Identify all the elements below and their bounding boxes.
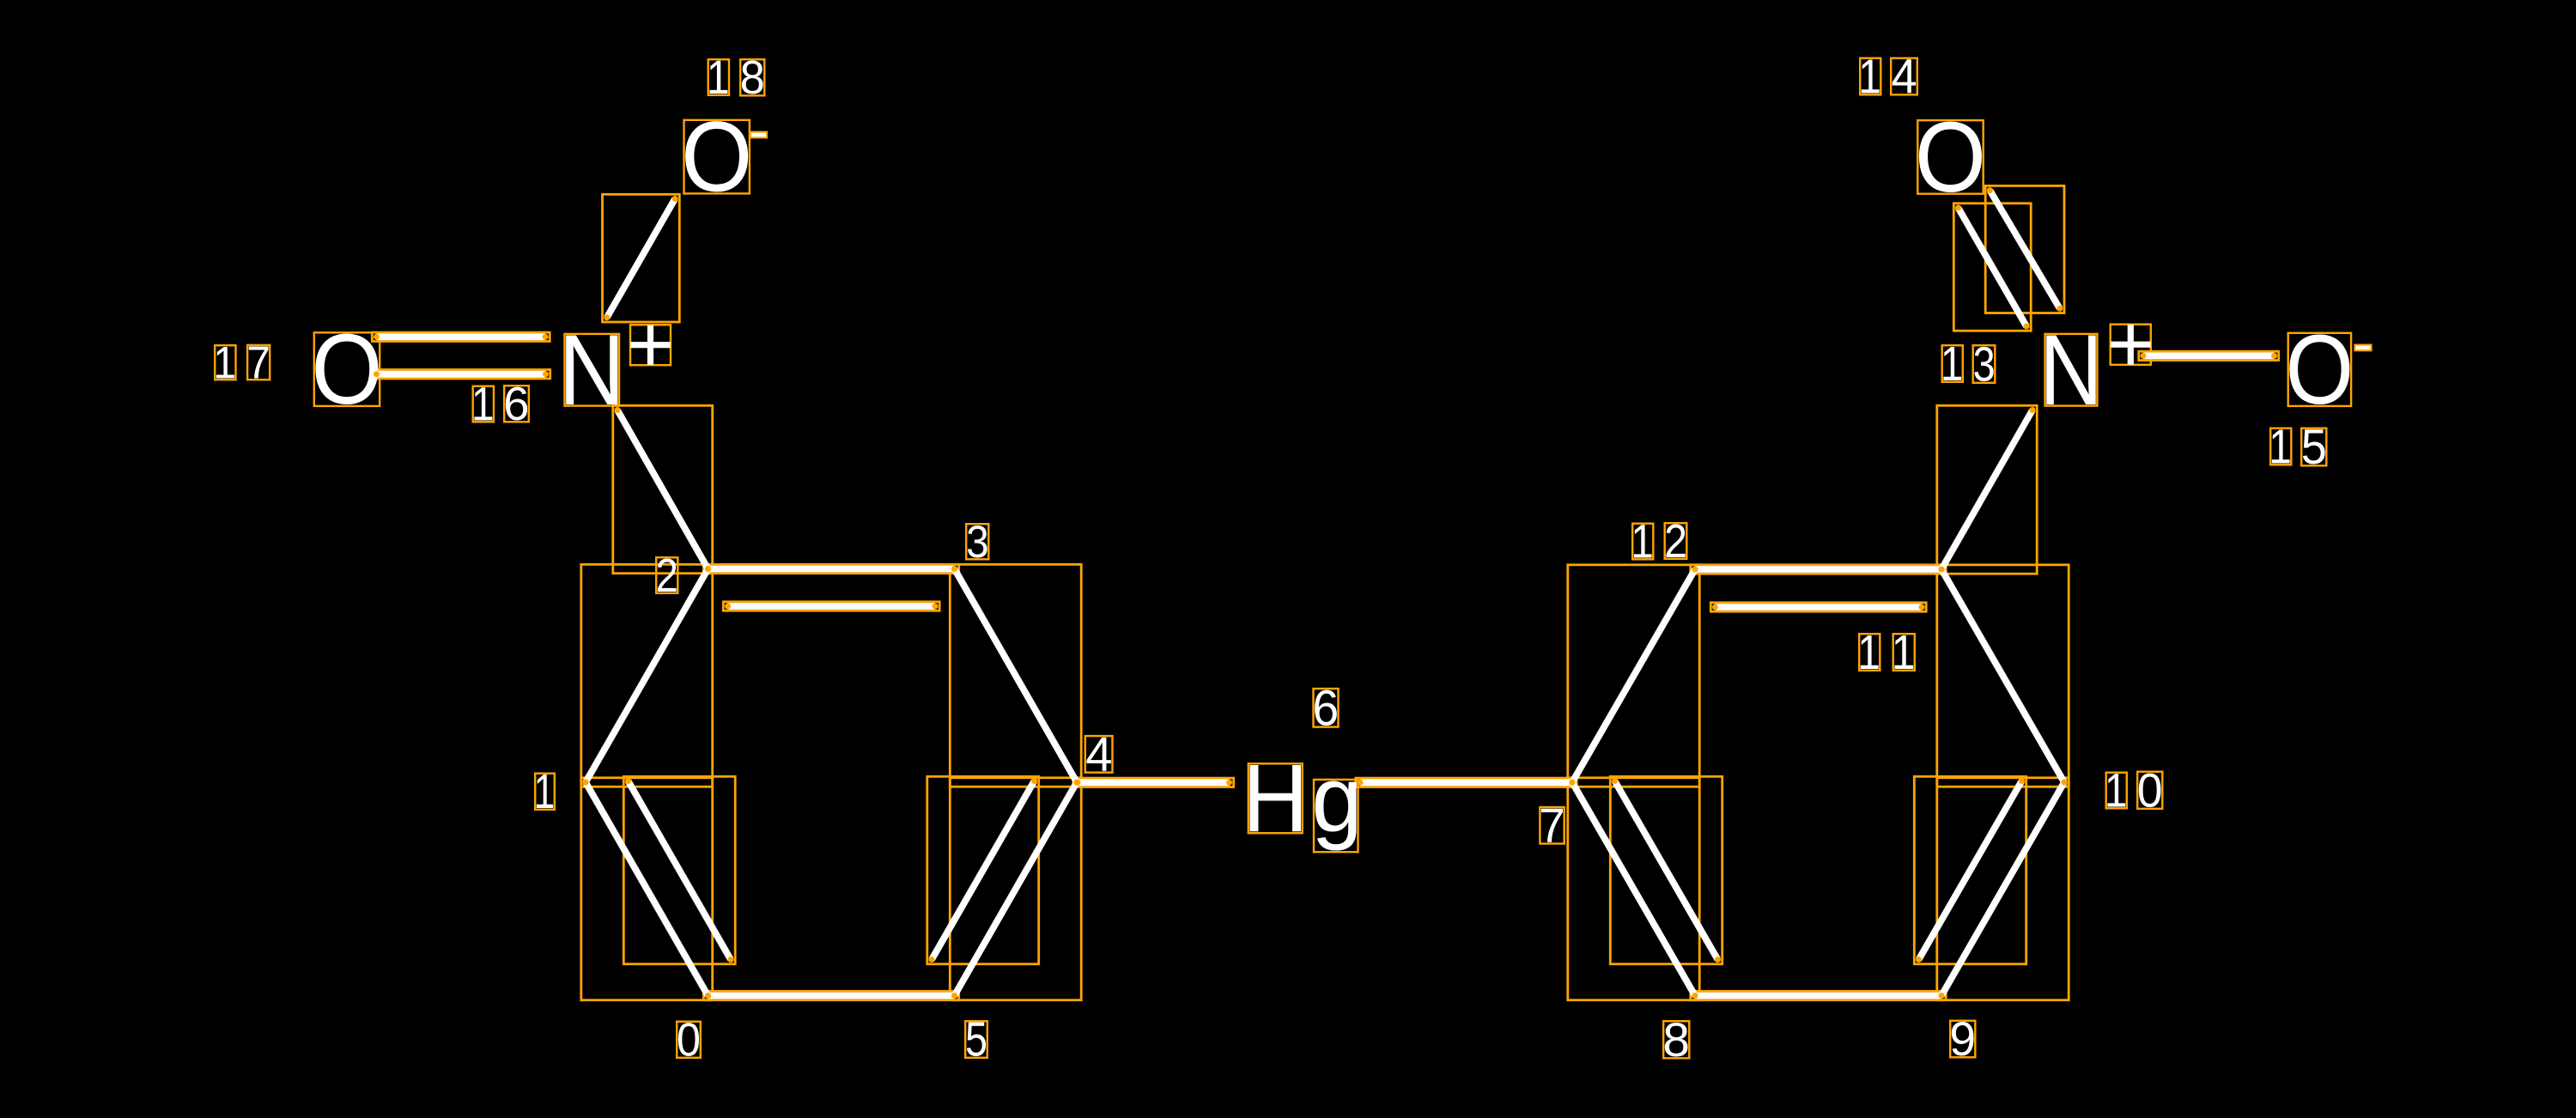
box of bond C0=C1 outer (581, 778, 713, 1000)
bond C0=C1 outer (586, 782, 708, 996)
endpoint markers of bond C10=C9 inner (2019, 778, 2025, 784)
bond C4-Hg (1078, 779, 1230, 786)
endpoint markers of bond O17=N16 line 1 (374, 334, 380, 340)
bond N13-O15 (2143, 352, 2275, 359)
box of index label 8 digit 1 (1663, 1021, 1689, 1058)
box of index label 17 digit 1 (215, 345, 235, 380)
endpoint markers of bond C7-C12 (1570, 780, 1576, 786)
box of bond N13=O14 line 2 (1985, 185, 2064, 313)
box of atom Hg6 label H (1249, 763, 1303, 833)
svg-text:1: 1 (213, 337, 236, 388)
box of charge minus on O15 (2355, 345, 2372, 350)
box of index label 10 digit 2 (2137, 772, 2162, 809)
box of bond N13=O14 line 1 (1953, 204, 2031, 331)
box of bond Hg-C7 (1356, 778, 1577, 787)
bond Hg-C7 (1360, 779, 1572, 786)
bond C2=C3 inner (728, 603, 936, 610)
svg-text:4: 4 (1085, 727, 1112, 781)
box of bond C1-C2 (581, 564, 713, 787)
endpoint markers of bond N13=O14 line 1 (1955, 205, 1961, 211)
box of bond C5-C0 (703, 991, 958, 1000)
box of atom Hg6 label g (1314, 780, 1358, 852)
box of atom N16 label (565, 334, 620, 406)
svg-text:8: 8 (1662, 1012, 1690, 1066)
svg-text:g: g (1311, 746, 1362, 851)
box of bond C2=C3 outer (703, 564, 958, 573)
endpoint markers of bond C11-C10 (1939, 567, 1945, 573)
svg-text:7: 7 (1539, 798, 1564, 853)
svg-text:1: 1 (471, 379, 495, 432)
endpoint markers of bond C1-C2 (583, 780, 589, 786)
svg-text:O: O (311, 313, 382, 425)
box of index label 15 digit 1 (2270, 428, 2291, 465)
endpoint markers of bond C2=C3 inner (725, 604, 731, 610)
box of bond C7-C12 (1568, 565, 1699, 787)
box of bond N16-C2 (613, 405, 713, 573)
svg-text:0: 0 (677, 1014, 701, 1066)
endpoint markers of bond C5-C0 (951, 993, 957, 999)
bond C12=C11 outer (1695, 566, 1941, 573)
charge minus on O18 (751, 133, 766, 137)
box of index label 16 digit 2 (504, 386, 529, 422)
box of bond C2=C3 inner (723, 602, 939, 611)
bond C2=C3 outer (708, 566, 955, 573)
box of atom O17 label (314, 332, 380, 406)
bond C3-C4 (955, 569, 1078, 783)
bond C12=C11 inner (1716, 604, 1923, 611)
box of index label 18 digit 1 (708, 59, 729, 95)
box of index label 12 digit 2 (1665, 523, 1687, 559)
box of bond O17=N16 line 2 (372, 370, 550, 379)
box of bond C4=C5 inner (927, 776, 1039, 963)
box of bond C8=C7 inner (1610, 776, 1722, 963)
box of bond C11-N13 (1937, 405, 2037, 574)
bond C11-C10 (1941, 569, 2064, 782)
endpoint markers of bond C12=C11 outer (1692, 567, 1698, 573)
box of atom O18 label (684, 120, 750, 194)
box of bond C12=C11 inner (1710, 603, 1926, 611)
box of index label 17 digit 2 (247, 345, 270, 380)
bond C10=C9 inner (1919, 781, 2022, 960)
box of bond C10=C9 inner (1914, 776, 2026, 963)
box of index label 4 digit 1 (1085, 736, 1113, 773)
svg-text:1: 1 (1857, 625, 1880, 680)
box of index label 2 digit 1 (656, 557, 677, 593)
endpoint markers of bond O17=N16 line 2 (374, 371, 380, 377)
svg-text:1: 1 (707, 52, 730, 105)
svg-text:5: 5 (965, 1012, 987, 1066)
box of charge plus on N16 (630, 325, 671, 365)
box of bond C12=C11 outer (1691, 565, 1946, 574)
svg-text:3: 3 (966, 516, 989, 568)
endpoint markers of bond C2=C3 outer (705, 566, 711, 572)
box of index label 16 digit 1 (473, 386, 494, 422)
box of bond C9-C8 (1691, 991, 1946, 1000)
box of index label 11 digit 2 (1893, 634, 1915, 671)
svg-text:0: 0 (2137, 763, 2163, 817)
bond N13=O14 line 2 (1990, 191, 2059, 309)
endpoint markers of bond N13=O14 line 2 (1987, 187, 1993, 193)
box of index label 14 digit 1 (1860, 58, 1880, 95)
box of index label 11 digit 1 (1859, 634, 1880, 671)
charge minus on O15 (2356, 346, 2371, 350)
endpoint markers of bond C10=C9 outer (2062, 780, 2068, 786)
bond C5-C0 (708, 993, 955, 1000)
bond C4=C5 inner (932, 781, 1035, 960)
svg-text:8: 8 (740, 52, 765, 104)
box of bond C4-Hg (1073, 778, 1234, 787)
box of bond C11-C10 (1937, 565, 2069, 787)
box of index label 13 digit 1 (1942, 345, 1963, 382)
endpoint markers of bond C12=C11 inner (1712, 605, 1718, 611)
endpoint markers of bond C8=C7 outer (1692, 993, 1698, 999)
box of bond O17=N16 line 1 (372, 332, 550, 341)
box of bond C4=C5 outer (950, 778, 1081, 1000)
charge plus on N16 (630, 325, 670, 365)
box of index label 7 digit 1 (1540, 807, 1564, 844)
endpoint markers of bond C11-N13 (1939, 567, 1945, 573)
svg-text:4: 4 (1892, 49, 1917, 104)
bond N13=O14 line 1 (1959, 208, 2027, 326)
box of bond N13-O15 (2139, 351, 2279, 360)
svg-text:7: 7 (246, 337, 270, 388)
bond C0=C1 inner (629, 781, 732, 960)
box of bond C10=C9 outer (1937, 778, 2069, 1000)
bond N16-O18 (607, 199, 675, 318)
endpoint markers of bond N16-O18 (604, 314, 610, 320)
svg-text:9: 9 (1949, 1012, 1976, 1066)
endpoint markers of bond N16-C2 (615, 407, 621, 413)
endpoint markers of bond N13-O15 (2141, 353, 2147, 359)
box of index label 12 digit 1 (1632, 524, 1653, 560)
bond C8=C7 outer (1572, 782, 1695, 996)
bond N16-C2 (617, 410, 708, 569)
box of charge minus on O18 (750, 132, 767, 137)
endpoint markers of bond C4=C5 outer (1074, 780, 1080, 786)
bond C10=C9 outer (1941, 782, 2064, 996)
box of atom O15 label (2288, 333, 2351, 406)
endpoint markers of bond C4=C5 inner (1031, 778, 1037, 784)
bond O17=N16 line 1 (377, 333, 546, 340)
svg-text:1: 1 (1631, 514, 1654, 568)
svg-text:N: N (2039, 314, 2103, 427)
svg-text:1: 1 (1892, 625, 1916, 680)
box of index label 3 digit 1 (966, 524, 988, 559)
box of index label 13 digit 2 (1973, 345, 1996, 383)
svg-text:2: 2 (1664, 514, 1687, 567)
box of index label 10 digit 1 (2106, 773, 2127, 809)
bond C9-C8 (1695, 993, 1941, 1000)
bond C4=C5 outer (955, 782, 1078, 996)
box of index label 5 digit 1 (965, 1021, 987, 1058)
box of bond C0=C1 inner (623, 776, 735, 963)
svg-text:3: 3 (1973, 337, 1996, 392)
svg-text:5: 5 (2301, 419, 2327, 475)
box of index label 9 digit 1 (1950, 1021, 1975, 1058)
svg-text:O: O (1915, 101, 1986, 213)
endpoint markers of bond C9-C8 (1939, 993, 1945, 999)
bond C1-C2 (586, 569, 708, 783)
svg-text:1: 1 (534, 764, 556, 818)
box of index label 6 digit 1 (1314, 689, 1339, 727)
box of atom O14 label (1917, 120, 1983, 194)
bond O17=N16 line 2 (377, 371, 546, 378)
svg-text:2: 2 (656, 550, 678, 602)
svg-text:1: 1 (2105, 763, 2128, 817)
box of index label 1 digit 1 (535, 774, 555, 810)
svg-text:1: 1 (1941, 337, 1964, 392)
svg-text:O: O (681, 101, 752, 213)
box of bond C8=C7 outer (1568, 778, 1699, 1000)
box of index label 18 digit 2 (740, 59, 764, 95)
box of index label 0 digit 1 (677, 1022, 701, 1058)
endpoint markers of bond C8=C7 inner (1612, 778, 1618, 784)
box of bond C3-C4 (950, 564, 1081, 787)
endpoint markers of bond C3-C4 (951, 566, 957, 572)
endpoint markers of bond C0=C1 inner (625, 778, 631, 784)
bond C7-C12 (1572, 569, 1695, 782)
endpoint markers of bond C4-Hg (1075, 780, 1081, 786)
box of index label 15 digit 2 (2301, 428, 2326, 466)
endpoint markers of bond C0=C1 outer (705, 993, 711, 999)
svg-text:1: 1 (1858, 50, 1881, 105)
endpoint markers of bond Hg-C7 (1358, 780, 1364, 786)
svg-text:H: H (1242, 745, 1309, 853)
box of atom N13 label (2045, 334, 2098, 406)
svg-text:O: O (2286, 314, 2354, 425)
bond C8=C7 inner (1615, 781, 1718, 960)
svg-text:1: 1 (2269, 420, 2292, 475)
box of bond N16-O18 (603, 194, 680, 322)
svg-text:6: 6 (1312, 681, 1339, 736)
bond C11-N13 (1941, 410, 2032, 570)
box of index label 14 digit 2 (1891, 58, 1917, 95)
charge plus on N13 (2111, 325, 2151, 365)
box of charge plus on N13 (2111, 325, 2151, 365)
svg-text:6: 6 (503, 378, 529, 430)
